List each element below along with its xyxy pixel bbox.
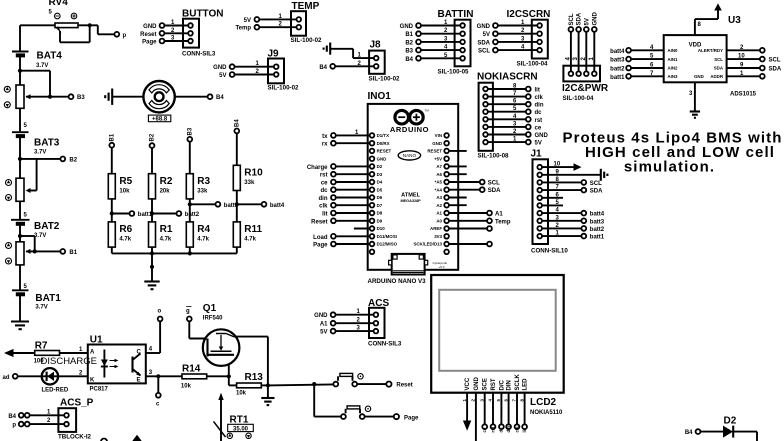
resistor R3 [186, 174, 210, 199]
terminal B4 (network input) [234, 119, 240, 134]
terminal SCL (U3 pin10) [727, 58, 760, 60]
svg-text:ad: ad [2, 375, 9, 381]
svg-text:ARDUINO: ARDUINO [390, 125, 429, 134]
connector NOKIASCRN SIL-100-08 [477, 71, 538, 159]
terminal tx [331, 133, 336, 138]
terminal dc [331, 187, 336, 192]
svg-text:D0/RX: D0/RX [377, 141, 390, 146]
terminal lit [331, 211, 336, 216]
terminal clk (LCD SCLK) [516, 393, 518, 425]
resistor R4 [186, 222, 210, 247]
power arrow (LCD VCC, down) [466, 393, 468, 422]
ground (below BAT1) [11, 322, 29, 330]
svg-text:SIL-100-04: SIL-100-04 [517, 61, 549, 68]
terminal 5V (NOKIASCRN pin1) [488, 141, 526, 143]
terminal batt2 (J1 pin2) [542, 227, 581, 229]
svg-text:RESET: RESET [377, 149, 392, 154]
svg-text:SCL: SCL [590, 181, 602, 187]
svg-text:SIL-100-02: SIL-100-02 [369, 76, 401, 83]
wire A3 stub [449, 197, 467, 199]
svg-text:SCLK: SCLK [515, 374, 521, 391]
wire A2 stub [449, 204, 467, 206]
svg-text:D11/MOSI: D11/MOSI [377, 234, 397, 239]
svg-text:DISCHARGE: DISCHARGE [41, 356, 97, 367]
terminal B2 (BATTIN) [416, 40, 421, 45]
svg-text:SIL-100-02: SIL-100-02 [291, 37, 323, 44]
svg-text:batt1: batt1 [590, 235, 605, 241]
svg-text:dc: dc [499, 427, 504, 433]
svg-text:*A4: *A4 [435, 187, 443, 192]
svg-text:GND: GND [400, 24, 414, 30]
terminal SCL (J1 pin8) [542, 181, 581, 183]
motor/meter [143, 81, 174, 112]
terminal 5V (TEMP) [255, 17, 260, 22]
svg-text:ADDR: ADDR [710, 74, 724, 79]
svg-text:SIL-100-05: SIL-100-05 [438, 69, 470, 76]
svg-text:rst: rst [535, 118, 543, 124]
svg-text:B4: B4 [685, 430, 693, 436]
terminal A1 (ACS) [331, 321, 336, 326]
svg-text:ce: ce [321, 181, 328, 187]
wire [164, 40, 188, 42]
terminal B1 [60, 249, 65, 254]
svg-text:ATMEL: ATMEL [401, 193, 420, 199]
terminal B4 (BATTIN) [416, 56, 421, 61]
svg-text:SDA: SDA [477, 40, 490, 46]
svg-text:B4: B4 [8, 414, 16, 420]
svg-text:SCE: SCE [483, 378, 489, 390]
svg-text:D5: D5 [377, 187, 383, 192]
svg-text:Reset: Reset [140, 32, 156, 38]
svg-text:A1: A1 [495, 212, 503, 218]
svg-text:Charge: Charge [307, 165, 328, 171]
terminal B4 (J8) [330, 64, 335, 69]
terminal Page (button) [394, 414, 399, 419]
terminal Load [331, 234, 336, 239]
svg-text:clk: clk [319, 204, 328, 210]
terminal 5V (J9) [230, 72, 235, 77]
svg-text:LCD2: LCD2 [530, 397, 557, 408]
terminal B1 (BATTIN) [416, 31, 421, 36]
wire [335, 65, 373, 67]
wire [164, 32, 188, 34]
svg-text:33k: 33k [244, 180, 255, 186]
power arrow (clipped, bottom edge) [132, 435, 141, 441]
svg-text:LED: LED [523, 378, 529, 391]
svg-text:SIL-100-02: SIL-100-02 [268, 85, 300, 92]
terminal SCL (I2C&PWR) [569, 27, 574, 32]
resistor R14 [181, 364, 207, 390]
svg-text:ACS_P: ACS_P [60, 398, 94, 409]
terminal GND (NOKIASCRN pin2) [488, 134, 526, 136]
ground (U3 pin3) [694, 82, 696, 111]
terminal GND (J9) [230, 64, 235, 69]
resistor R10 [233, 165, 263, 190]
svg-text:A7: A7 [436, 164, 442, 169]
terminal ce (LCD SCE) [484, 393, 486, 425]
svg-text:3.7V: 3.7V [34, 233, 46, 239]
wire [111, 148, 113, 174]
svg-text:batt4: batt4 [590, 212, 605, 218]
svg-text:clk: clk [535, 95, 544, 101]
terminal GND (BUTTON) [160, 23, 165, 28]
svg-text:o: o [158, 309, 162, 315]
terminal Page [331, 242, 336, 247]
node BAT4 junction [18, 69, 22, 73]
svg-text:rx: rx [322, 142, 328, 148]
wire A6 stub [449, 173, 467, 175]
svg-text:din: din [535, 103, 544, 109]
terminal din [331, 195, 336, 200]
button Page [341, 406, 371, 419]
LCD2 NOKIA5110 [431, 275, 564, 416]
svg-text:R1: R1 [160, 224, 173, 235]
svg-text:4.7k: 4.7k [244, 237, 256, 243]
terminal g [187, 317, 192, 322]
terminal rx [331, 141, 336, 146]
svg-text:D2: D2 [724, 416, 737, 427]
svg-text:U3: U3 [728, 15, 741, 26]
svg-text:TEMP: TEMP [292, 1, 320, 12]
svg-text:BAT4: BAT4 [37, 51, 63, 62]
wire drain to R13 node [235, 336, 268, 338]
wire R13 node to buttons [268, 384, 334, 385]
svg-text:B1: B1 [405, 32, 413, 38]
svg-text:5V: 5V [483, 32, 490, 38]
terminal ALERT (U3 pin2) [727, 49, 760, 51]
terminal B3 (network input) [187, 127, 193, 142]
button Reset [333, 373, 363, 386]
node R14 junction [227, 374, 231, 378]
terminal batt4 [262, 202, 267, 207]
thermistor RT1 [214, 393, 254, 441]
svg-text:R4: R4 [197, 224, 210, 235]
terminal clk (NOKIASCRN pin7) [488, 96, 526, 98]
svg-text:R2: R2 [160, 176, 173, 187]
transistor Q1 IRF540 [203, 303, 240, 366]
svg-text:SDA: SDA [714, 66, 724, 71]
terminal SCL (A5) [449, 181, 480, 183]
svg-text:batt2: batt2 [590, 227, 605, 233]
wire [235, 66, 274, 68]
wire pot to BAT1 [19, 265, 21, 290]
terminal Temp (A0) [449, 220, 487, 222]
terminal SDA (J1 pin7) [542, 189, 581, 191]
wire [235, 74, 274, 76]
svg-text:D4: D4 [377, 180, 383, 185]
svg-text:din: din [506, 426, 511, 433]
connector I2CSCRN SIL-100-04 [507, 9, 551, 68]
terminal SCL (I2CSCRN) [493, 48, 498, 53]
svg-text:+5V: +5V [434, 156, 442, 161]
pins left column INO1 [370, 133, 398, 254]
svg-text:33k: 33k [197, 189, 208, 195]
svg-text:RV4: RV4 [49, 0, 69, 8]
svg-text:Q1: Q1 [203, 303, 217, 314]
svg-text:D/C: D/C [499, 380, 505, 391]
terminal GND (I2C&PWR) [592, 27, 597, 32]
terminal rst (LCD RST) [492, 393, 494, 425]
node R13 output junction [261, 384, 268, 386]
terminal p [114, 32, 119, 37]
svg-text:J1: J1 [531, 149, 543, 160]
wire to Reset terminal [357, 383, 386, 385]
svg-text:5V: 5V [219, 73, 226, 79]
wire [111, 199, 113, 222]
terminal B4 (motor) [208, 94, 213, 99]
svg-text:4.7k: 4.7k [119, 237, 131, 243]
svg-text:INO1: INO1 [368, 91, 392, 102]
terminal SDA (U3 pin9) [727, 67, 760, 69]
node RV4 output junction [88, 23, 92, 27]
svg-text:*A5: *A5 [435, 180, 443, 185]
svg-text:ce: ce [482, 427, 487, 432]
svg-text:rst: rst [320, 173, 328, 179]
resistor R11 [233, 222, 262, 247]
terminal clk [331, 203, 336, 208]
svg-text:rst: rst [490, 426, 495, 432]
svg-text:5V: 5V [535, 141, 542, 147]
svg-text:3.7V: 3.7V [36, 63, 48, 69]
terminal SDA (A4) [449, 189, 480, 191]
wire RESET stub right [449, 150, 467, 152]
svg-text:A3: A3 [436, 195, 442, 200]
svg-text:B3: B3 [188, 127, 194, 135]
svg-text:SCL: SCL [714, 57, 723, 62]
wire bottom bus [112, 252, 237, 254]
wire stub (J1 pin5) [542, 204, 563, 206]
svg-text:GND: GND [474, 377, 480, 391]
wire R7 to U1 pin1 [60, 352, 88, 354]
svg-text:A1: A1 [320, 322, 328, 328]
wire jog to wiper node B1 [20, 235, 35, 237]
svg-text:10: 10 [554, 162, 561, 168]
svg-text:D6: D6 [377, 195, 383, 200]
connector J1 CONN-SIL10 [531, 149, 569, 255]
svg-text:BATTIN: BATTIN [438, 9, 474, 20]
wire stub (J1 pin6) [542, 197, 563, 199]
wire pot to BAT3 [19, 108, 21, 131]
svg-text:GND: GND [377, 156, 387, 161]
svg-text:20k: 20k [160, 189, 171, 195]
svg-text:lit: lit [535, 88, 540, 94]
diode D2 [685, 416, 757, 441]
terminal B3 (cell tap) [69, 94, 74, 99]
svg-text:GND: GND [477, 24, 491, 30]
svg-text:D2: D2 [377, 164, 383, 169]
battery BAT4 [12, 51, 62, 69]
terminal 5V (I2CSCRN) [493, 31, 498, 36]
svg-text:batt3: batt3 [610, 58, 625, 64]
node c junction [156, 374, 160, 378]
svg-text:5V: 5V [244, 18, 251, 24]
svg-text:Temp: Temp [235, 26, 251, 32]
svg-text:A6: A6 [436, 172, 442, 177]
svg-text:A: A [90, 350, 95, 356]
terminal lit (NOKIASCRN pin8) [488, 88, 526, 90]
node batt1 junction [110, 211, 114, 215]
resistor R7 [34, 341, 60, 365]
battery BAT2 [11, 220, 60, 239]
terminal batt2 (U3 AIN2 pin6) [626, 66, 631, 71]
svg-text:SDA: SDA [577, 12, 583, 25]
svg-text:A0: A0 [436, 218, 442, 223]
wire BAT3 wiper loop [31, 190, 37, 192]
terminal lit (LCD LED) [524, 393, 526, 425]
terminal ad [13, 374, 18, 379]
terminal SDA (I2CSCRN) [493, 40, 498, 45]
svg-text:ALERT/RDY: ALERT/RDY [698, 48, 723, 53]
wire J8 pin1 to ground [330, 48, 353, 50]
terminal batt1 [130, 211, 135, 216]
svg-text:SIL-100-08: SIL-100-08 [478, 153, 510, 160]
node batt2 junction [150, 211, 154, 215]
wire RV4 wiper loop [59, 31, 61, 42]
svg-text:tx: tx [322, 134, 328, 140]
wire pot to BAT2 [19, 201, 21, 219]
ground (J8, rotated) [324, 43, 331, 55]
connector J8 SIL-100-02 [369, 40, 401, 83]
terminal batt3 (U3 AIN1 pin5) [626, 57, 631, 62]
svg-text:R13: R13 [245, 372, 264, 383]
terminal Charge [331, 164, 336, 169]
svg-text:LED-RED: LED-RED [42, 388, 69, 394]
wire [259, 18, 296, 20]
wire jog to wiper node B3 [20, 70, 50, 72]
wire U1 pin4 to terminal o [146, 352, 160, 354]
battery BAT1 [12, 290, 61, 310]
terminal GND (ACS) [331, 312, 336, 317]
wire [18, 375, 42, 377]
wire U1 pin3 to R14 [146, 375, 182, 377]
svg-text:g: g [186, 309, 190, 315]
svg-text:batt4: batt4 [270, 203, 285, 209]
terminal c [157, 376, 159, 393]
svg-text:RESET: RESET [427, 149, 442, 154]
terminal Reset [331, 218, 336, 223]
svg-text:simulation.: simulation. [624, 159, 715, 176]
svg-text:+88.8: +88.8 [152, 117, 168, 123]
svg-text:IRF540: IRF540 [203, 316, 223, 322]
terminal GND (I2CSCRN) [493, 23, 498, 28]
terminal (clipped, bottom edge) [101, 439, 107, 441]
terminal batt4 (J1 pin4) [542, 212, 581, 214]
terminal ce (NOKIASCRN pin3) [488, 126, 526, 128]
svg-text:NOKIASCRN: NOKIASCRN [477, 71, 538, 82]
svg-text:SCL: SCL [478, 49, 490, 55]
potentiometer cell sim (BAT3) [6, 178, 31, 201]
node buttons junction [312, 382, 316, 386]
svg-text:10k: 10k [181, 384, 192, 390]
svg-text:B3: B3 [77, 95, 85, 101]
terminal Reset (BUTTON) [160, 31, 165, 36]
terminal rst (NOKIASCRN pin4) [488, 118, 526, 120]
svg-text:AIN2: AIN2 [668, 66, 679, 71]
potentiometer cell sim (BAT2) [6, 242, 31, 265]
terminal GND (BATTIN) [416, 23, 421, 28]
terminal o [158, 317, 163, 322]
svg-text:SIL-100-04: SIL-100-04 [563, 95, 595, 102]
svg-text:D3: D3 [377, 172, 383, 177]
svg-text:PC817: PC817 [90, 387, 109, 393]
USB connector [389, 254, 428, 275]
wire g to gate [188, 321, 190, 338]
svg-text:Reset: Reset [396, 383, 412, 389]
svg-text:Temp: Temp [495, 219, 511, 225]
resistor R5 [108, 174, 132, 199]
svg-text:D12/MISO: D12/MISO [377, 242, 398, 247]
svg-text:Page: Page [142, 40, 157, 46]
terminal ADDR (U3 pin1) [727, 75, 760, 77]
svg-text:3.7V: 3.7V [34, 149, 46, 155]
terminal rst [331, 172, 336, 177]
wire ground to motor [112, 96, 143, 98]
wire motor to B4 [175, 96, 208, 98]
terminal AREF [449, 228, 487, 230]
svg-text:I2CSCRN: I2CSCRN [507, 9, 551, 20]
terminal D13 [449, 243, 487, 245]
resistor R1 [149, 222, 173, 247]
power arrow (U3 VDD pin8) [694, 19, 696, 35]
svg-text:D10: D10 [377, 226, 386, 231]
terminal din (LCD DIN) [508, 393, 510, 425]
svg-text:SCK/LED/D13: SCK/LED/D13 [413, 242, 442, 247]
svg-text:dc: dc [320, 188, 328, 194]
svg-text:K: K [90, 378, 95, 384]
connector BUTTON CONN-SIL3 [182, 9, 223, 58]
wire arrow DISCHARGE out [4, 349, 35, 357]
resistor R6 [108, 222, 132, 247]
svg-text:I2C&PWR: I2C&PWR [562, 83, 609, 94]
svg-text:5V: 5V [320, 330, 327, 336]
svg-text:B2: B2 [69, 158, 77, 164]
svg-text:ARDUINO NANO V3: ARDUINO NANO V3 [368, 278, 427, 285]
svg-text:R7: R7 [35, 341, 48, 352]
terminal SDA (I2C&PWR) [576, 27, 581, 32]
svg-text:CONN-SIL3: CONN-SIL3 [368, 341, 402, 348]
svg-text:B1: B1 [110, 133, 116, 141]
terminal ce [331, 180, 336, 185]
wire [259, 26, 296, 28]
ground (resistor network) [144, 282, 159, 290]
svg-text:D9: D9 [377, 218, 383, 223]
svg-text:R11: R11 [244, 224, 262, 235]
svg-text:CONN-SIL3: CONN-SIL3 [182, 51, 216, 58]
svg-text:E: E [137, 378, 141, 384]
svg-text:B4: B4 [216, 95, 224, 101]
svg-text:AIN0: AIN0 [668, 48, 679, 53]
wire RV4 right to terminal p [78, 24, 98, 26]
node batt3 junction [188, 202, 192, 206]
svg-text:BAT3: BAT3 [34, 138, 60, 149]
svg-text:35.00: 35.00 [233, 426, 249, 432]
svg-text:B1: B1 [69, 250, 77, 256]
op-amp U1? no: module INO1 ARDUINO NANO V3 [368, 91, 459, 285]
terminal Temp (TEMP) [255, 25, 260, 30]
svg-text:3.7V: 3.7V [35, 305, 47, 311]
svg-text:B4: B4 [319, 65, 327, 71]
terminal 5V (I2C&PWR) [584, 27, 589, 32]
op-amp U1? no: optocoupler U1 PC817 [88, 335, 146, 393]
svg-text:batt3: batt3 [590, 219, 605, 225]
node BAT2 junction [18, 234, 22, 238]
svg-text:B4: B4 [405, 57, 413, 63]
svg-text:A2: A2 [436, 203, 442, 208]
LED D? LED-RED [42, 368, 69, 393]
wire D10 [354, 228, 370, 230]
svg-text:B3: B3 [405, 49, 413, 55]
svg-text:D1/TX: D1/TX [377, 133, 390, 138]
